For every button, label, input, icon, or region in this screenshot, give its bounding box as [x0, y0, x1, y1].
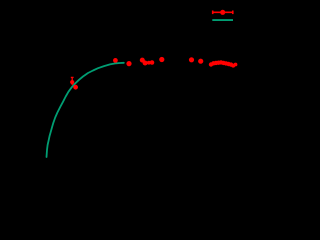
data point cluster at right — [209, 60, 238, 67]
data point P9 — [159, 57, 164, 62]
data point P11 — [198, 59, 203, 64]
data point P3 — [113, 58, 118, 63]
plot background — [0, 0, 258, 180]
data point P1 — [70, 80, 74, 84]
data point P2 — [73, 85, 78, 90]
data point P4 — [126, 61, 131, 66]
data point P6 — [143, 61, 148, 66]
fit curve (green saturation curve) — [47, 63, 124, 157]
error bar of data point P1 — [71, 77, 74, 85]
legend: errorbar sample (red) — [212, 11, 233, 15]
data point P7 — [147, 61, 151, 65]
data point P5 — [140, 58, 145, 63]
data point P10 — [189, 57, 194, 62]
data point P8 — [150, 60, 155, 65]
legend: errorbar sample marker — [220, 10, 225, 15]
legend: fit line sample (green) — [212, 19, 233, 21]
